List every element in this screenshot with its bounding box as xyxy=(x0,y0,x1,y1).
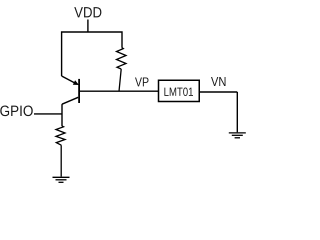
wire GPIO lead xyxy=(34,113,62,115)
label LMT01 xyxy=(164,88,193,97)
transistor Q1 (PNP) xyxy=(62,76,80,104)
net label GPIO xyxy=(0,106,33,117)
wire R2 bottom lead to ground xyxy=(60,145,62,176)
ground (right) xyxy=(229,133,246,138)
wire VDD top rail with left and right branch drops xyxy=(62,32,122,76)
node label VP xyxy=(135,77,149,86)
Q1 emitter arrowhead xyxy=(73,80,79,85)
wire base/VP rail xyxy=(80,90,159,92)
wire collector node vertical xyxy=(61,104,63,126)
Q1 base bar xyxy=(78,79,80,103)
Q1 emitter diagonal xyxy=(62,76,75,83)
resistor R1 (pull-up) xyxy=(117,48,127,69)
net label VDD xyxy=(74,7,101,17)
Q1 collector diagonal xyxy=(62,97,78,104)
wire R1 bottom lead to VP rail xyxy=(119,69,121,91)
ground (left) xyxy=(53,177,70,182)
node label VN xyxy=(211,77,226,86)
LMT01 U1 box xyxy=(159,80,200,101)
resistor R2 (to ground) xyxy=(56,126,65,145)
wire VN to ground xyxy=(236,92,238,132)
wire VDD stub xyxy=(87,20,89,33)
wire U1 right lead xyxy=(200,91,237,93)
